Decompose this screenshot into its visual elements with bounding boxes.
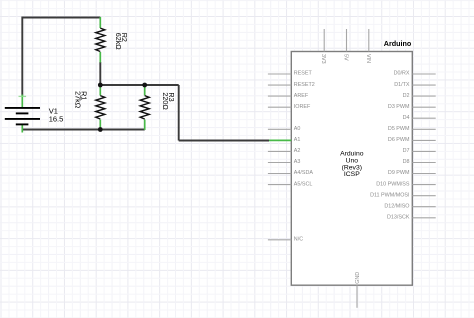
svg-text:N/C: N/C [294, 237, 303, 243]
pin D1/TX [412, 84, 435, 86]
wire left vertical [21, 17, 23, 96]
svg-text:D12/MISO: D12/MISO [384, 203, 409, 209]
svg-text:A3: A3 [294, 159, 301, 165]
resistor R2 [96, 17, 129, 63]
pin A5/SCL [268, 184, 291, 186]
pin A0 [268, 128, 291, 130]
svg-text:D9 PWM: D9 PWM [388, 170, 410, 176]
pin labels top rotated [320, 54, 371, 64]
pin IOREF [268, 106, 291, 108]
svg-text:D0/RX: D0/RX [394, 71, 410, 77]
pin D9 [412, 173, 435, 175]
svg-text:D5 PWM: D5 PWM [388, 126, 410, 132]
svg-text:D2: D2 [403, 93, 410, 99]
svg-text:RESET2: RESET2 [294, 82, 315, 88]
wire corner down [178, 85, 180, 141]
svg-text:D13/SCK: D13/SCK [387, 215, 410, 221]
svg-text:D3 PWM: D3 PWM [388, 104, 410, 110]
svg-text:D11 PWM/MOSI: D11 PWM/MOSI [370, 192, 409, 198]
svg-text:A2: A2 [294, 148, 301, 154]
svg-text:AREF: AREF [294, 93, 309, 99]
pin 5V [346, 29, 348, 52]
pin A2 [268, 150, 291, 152]
svg-text:Arduino: Arduino [384, 39, 412, 48]
pin AREF [268, 95, 291, 97]
svg-text:VIN: VIN [365, 54, 371, 63]
IC U1 Arduino Uno (Rev3) body [291, 52, 412, 286]
svg-text:16.5: 16.5 [49, 115, 64, 124]
battery V1 [5, 95, 64, 133]
pin RESET [268, 73, 291, 75]
svg-text:A5/SCL: A5/SCL [294, 181, 313, 187]
pin D13 [412, 217, 435, 219]
pins top [324, 29, 369, 52]
pin A1 connected green [269, 139, 291, 141]
pin VIN [368, 29, 370, 52]
pin D2 [412, 95, 435, 97]
svg-text:5V: 5V [343, 54, 349, 61]
pin D3 [412, 106, 435, 108]
svg-text:A4/SDA: A4/SDA [294, 170, 314, 176]
svg-text:A0: A0 [294, 126, 301, 132]
resistor R3 [140, 85, 176, 130]
svg-text:RESET: RESET [294, 71, 313, 77]
pin D6 [412, 139, 435, 141]
node junction R3 top [142, 83, 147, 88]
wire R2 bottom to junction [99, 62, 101, 85]
node junction R2/R1 [98, 83, 103, 88]
wire bottom horizontal [22, 129, 144, 131]
wire junction row [100, 84, 178, 86]
pin D12 [412, 206, 435, 208]
pin N/C [268, 239, 291, 241]
node junction bottom [98, 127, 103, 132]
pin A3 [268, 162, 291, 164]
svg-text:D1/TX: D1/TX [394, 82, 410, 88]
svg-text:3V3: 3V3 [320, 54, 326, 64]
svg-text:D8: D8 [403, 159, 410, 165]
pin D11 [412, 195, 435, 197]
pin D8 [412, 162, 435, 164]
pin labels right [370, 71, 410, 221]
wire top horizontal [22, 17, 100, 19]
pin GND bottom [356, 285, 358, 308]
pin A4/SDA [268, 173, 291, 175]
pin D0/RX [412, 73, 435, 75]
resistor R1 [73, 85, 104, 130]
pin D5 [412, 128, 435, 130]
pin D7 [412, 150, 435, 152]
svg-text:A1: A1 [294, 137, 301, 143]
svg-text:D6 PWM: D6 PWM [388, 137, 410, 143]
pin labels left [294, 71, 315, 243]
pin RESET2 [268, 84, 291, 86]
svg-text:D4: D4 [403, 115, 410, 121]
pin 3V3 [323, 29, 325, 52]
svg-text:D7: D7 [403, 148, 410, 154]
pins right side [412, 74, 435, 218]
wire to A1 [179, 140, 269, 142]
svg-text:IOREF: IOREF [294, 104, 311, 110]
svg-text:D10 PWM/SS: D10 PWM/SS [376, 181, 410, 187]
pin D4 [412, 117, 435, 119]
pin D10 [412, 184, 435, 186]
pins left side [268, 74, 291, 240]
svg-text:GND: GND [355, 272, 361, 284]
